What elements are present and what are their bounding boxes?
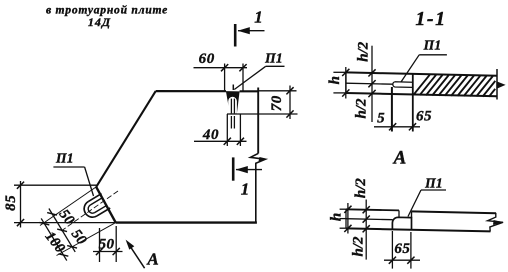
svg-text:1: 1 xyxy=(254,8,263,27)
svg-text:5: 5 xyxy=(377,111,385,127)
svg-text:П1: П1 xyxy=(264,51,283,66)
svg-text:1-1: 1-1 xyxy=(415,8,446,30)
svg-text:85: 85 xyxy=(3,195,19,211)
svg-text:65: 65 xyxy=(416,109,432,125)
svg-text:65: 65 xyxy=(394,241,410,257)
svg-text:50: 50 xyxy=(99,237,115,253)
svg-text:П1: П1 xyxy=(55,151,74,166)
svg-text:А: А xyxy=(393,148,407,169)
svg-text:h/2: h/2 xyxy=(356,41,372,62)
svg-text:1: 1 xyxy=(241,180,250,199)
svg-text:h: h xyxy=(329,213,345,221)
svg-text:60: 60 xyxy=(199,51,215,67)
svg-text:70: 70 xyxy=(269,95,285,111)
svg-text:А: А xyxy=(146,250,158,269)
svg-text:40: 40 xyxy=(202,127,219,143)
svg-text:h/2: h/2 xyxy=(351,236,367,257)
svg-text:П1: П1 xyxy=(423,37,442,52)
svg-text:h: h xyxy=(327,76,343,84)
svg-text:h/2: h/2 xyxy=(353,98,369,119)
svg-text:14Д: 14Д xyxy=(88,15,111,29)
svg-text:h/2: h/2 xyxy=(353,178,369,199)
svg-text:П1: П1 xyxy=(424,175,443,190)
